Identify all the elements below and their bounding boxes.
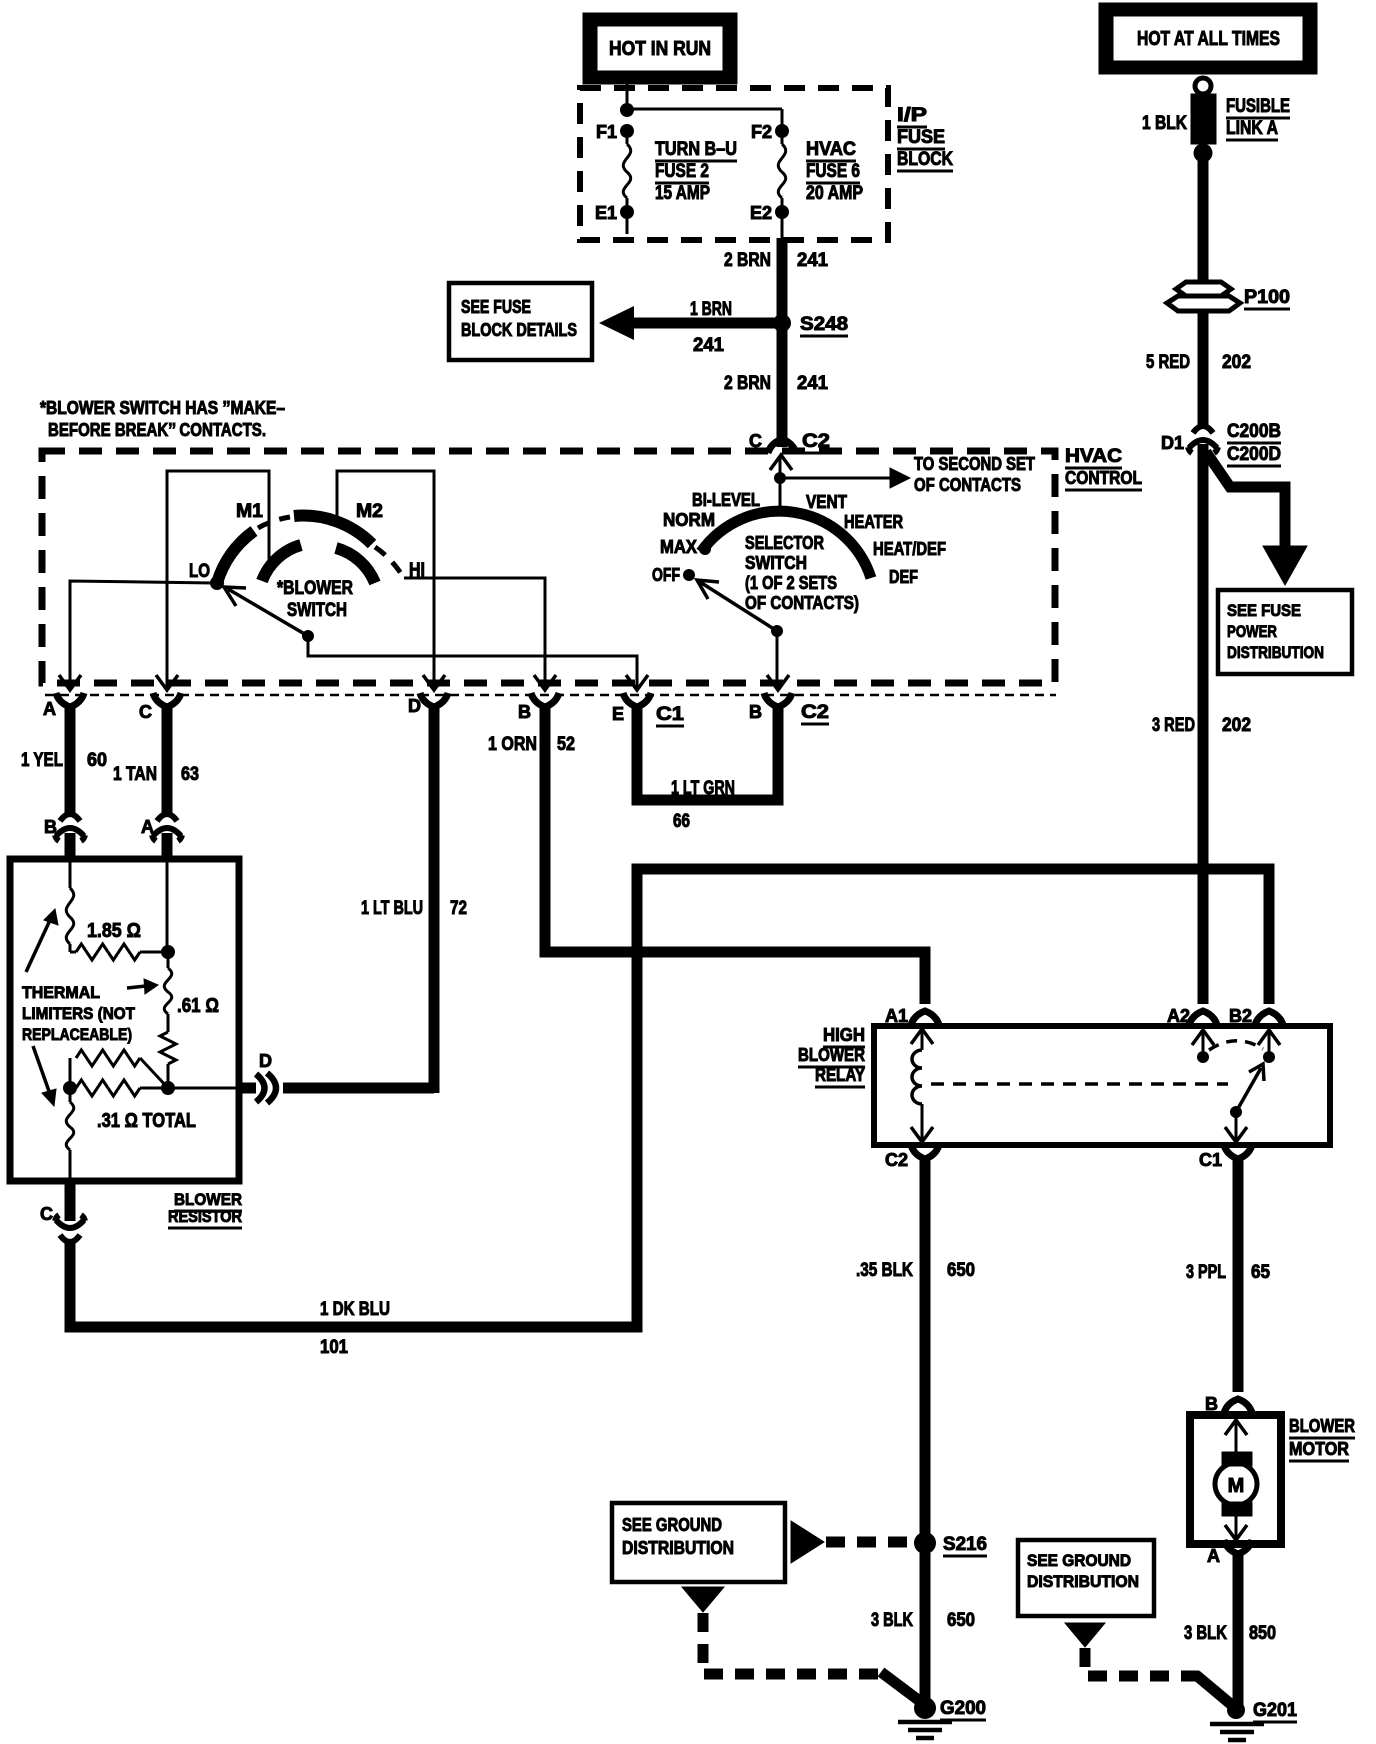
svg-text:POWER: POWER <box>1227 622 1277 641</box>
svg-text:C1: C1 <box>656 704 684 725</box>
callout box SEE GROUND DISTRIBUTION right <box>1018 1540 1154 1616</box>
svg-text:G201: G201 <box>1253 1700 1297 1721</box>
wire 1 LT BLU 72 <box>429 705 440 1093</box>
wire HI contact to terminal B <box>404 578 545 687</box>
svg-text:202: 202 <box>1222 715 1251 736</box>
dashed ground wire to G200 <box>703 1613 884 1674</box>
callout box SEE GROUND DISTRIBUTION left <box>612 1503 785 1582</box>
resistor .31 ohm upper zigzag <box>69 1058 72 1088</box>
fusible link A <box>1195 78 1211 94</box>
svg-text:A: A <box>43 699 56 719</box>
terminal C2 relay <box>911 1145 939 1159</box>
svg-text:C1: C1 <box>1199 1150 1222 1170</box>
blower switch outer arc solid LO-M1 <box>217 531 254 583</box>
leader arrow to middle limiter <box>127 986 146 988</box>
svg-text:3 BLK: 3 BLK <box>1184 1623 1227 1644</box>
svg-text:A: A <box>141 817 154 837</box>
svg-text:C200B: C200B <box>1227 421 1281 442</box>
svg-text:S248: S248 <box>800 314 848 335</box>
svg-text:B: B <box>44 817 57 837</box>
terminal E C1 HVAC control <box>626 675 648 690</box>
svg-text:DEF: DEF <box>889 567 918 587</box>
wire 3 RED 202 to relay A2 <box>1198 444 1209 1004</box>
wire 1 BRN 241 arrow to fuse block details <box>630 318 778 329</box>
svg-text:1 YEL: 1 YEL <box>21 750 63 771</box>
svg-text:C200D: C200D <box>1227 444 1281 465</box>
svg-text:241: 241 <box>693 335 724 356</box>
svg-text:B: B <box>749 702 762 722</box>
blower switch M2 loop wire <box>337 471 434 687</box>
blower switch outer arc dashed M1 section <box>258 517 290 528</box>
svg-text:SEE GROUND: SEE GROUND <box>1027 1551 1131 1570</box>
svg-text:VENT: VENT <box>806 492 847 512</box>
pin E1 <box>620 205 634 219</box>
svg-text:60: 60 <box>87 750 107 771</box>
relay internal dashed link <box>931 1082 1228 1086</box>
terminal C1 relay <box>1224 1145 1252 1159</box>
svg-text:850: 850 <box>1249 1623 1276 1644</box>
wire 3 PPL 65 <box>1233 1159 1244 1392</box>
svg-text:E1: E1 <box>595 203 617 223</box>
svg-text:I/P: I/P <box>897 105 927 126</box>
svg-text:1 DK BLU: 1 DK BLU <box>320 1299 390 1320</box>
blower switch inner arc left segment <box>262 545 301 581</box>
connector C of C2 HVAC control <box>768 439 796 453</box>
node 1.85 to .61 junction <box>161 945 175 959</box>
svg-text:NORM: NORM <box>663 510 715 530</box>
callout box SEE FUSE BLOCK DETAILS <box>449 283 592 360</box>
svg-text:15 AMP: 15 AMP <box>655 183 710 204</box>
svg-text:1 LT BLU: 1 LT BLU <box>361 898 423 919</box>
svg-text:MAX: MAX <box>660 537 697 557</box>
connector P100 grommet <box>1176 282 1231 296</box>
svg-text:C2: C2 <box>801 702 829 723</box>
svg-text:*BLOWER SWITCH HAS ’’MAKE–: *BLOWER SWITCH HAS ’’MAKE– <box>40 398 285 418</box>
svg-text:3 RED: 3 RED <box>1152 715 1195 736</box>
contact LO <box>210 576 224 590</box>
wire 2 BRN 241 upper <box>777 238 788 447</box>
svg-text:B2: B2 <box>1229 1006 1252 1026</box>
selector wiper pivot <box>771 625 783 637</box>
HVAC control dashed outline <box>42 451 1055 683</box>
svg-text:BLOWER: BLOWER <box>798 1045 865 1065</box>
svg-text:FUSE 2: FUSE 2 <box>655 161 709 182</box>
svg-text:BLOWER: BLOWER <box>1289 1416 1355 1436</box>
connector B inline on YEL wire <box>60 814 80 821</box>
wire F1 to F2 bus <box>627 108 782 111</box>
wire junction to selector arc <box>779 478 782 512</box>
leader arrow to lower limiter <box>33 1046 50 1094</box>
svg-text:LO: LO <box>189 561 210 582</box>
wire 1 DK BLU 101 <box>70 869 1269 1327</box>
svg-text:A2: A2 <box>1167 1006 1190 1026</box>
selector switch arc <box>701 511 871 578</box>
svg-text:20 AMP: 20 AMP <box>806 183 863 204</box>
contact MAX dot <box>699 543 711 555</box>
wire 3 BLK 850 <box>1233 1555 1244 1706</box>
terminal A HVAC control <box>59 675 81 690</box>
svg-text:C: C <box>40 1204 53 1224</box>
selector wiper arm <box>700 582 777 631</box>
svg-text:DISTRIBUTION: DISTRIBUTION <box>1027 1572 1139 1591</box>
svg-text:D: D <box>259 1051 272 1071</box>
svg-text:DISTRIBUTION: DISTRIBUTION <box>1227 643 1324 662</box>
dashed wire to S216 <box>826 1537 913 1548</box>
svg-text:RESISTOR: RESISTOR <box>168 1207 242 1226</box>
callout box SEE FUSE POWER DISTRIBUTION <box>1218 590 1352 674</box>
ground G200 <box>914 1697 936 1719</box>
svg-text:D: D <box>408 696 421 716</box>
svg-text:HEATER: HEATER <box>844 512 903 532</box>
svg-text:HEAT/DEF: HEAT/DEF <box>873 539 946 559</box>
terminal B blower motor <box>1224 1399 1252 1413</box>
svg-text:OFF: OFF <box>652 565 680 585</box>
svg-text:(1 OF 2 SETS: (1 OF 2 SETS <box>745 573 837 593</box>
resistor .31 ohm lower zigzag <box>70 1087 76 1090</box>
connector C inline below resistor <box>55 1215 85 1228</box>
svg-text:E2: E2 <box>750 203 772 223</box>
svg-text:CONTROL: CONTROL <box>1065 468 1142 488</box>
wire 1 YEL 60 <box>65 705 76 813</box>
pointer triangle below right box <box>1065 1623 1105 1647</box>
svg-text:1 BRN: 1 BRN <box>690 299 732 320</box>
I/P fuse block dashed outline <box>580 88 888 240</box>
svg-text:3 PPL: 3 PPL <box>1186 1262 1226 1283</box>
terminal A1 relay <box>911 1011 939 1025</box>
dashed ground wire to G201 <box>1085 1648 1199 1676</box>
pointer triangle to S216 <box>791 1521 824 1563</box>
node D output junction <box>161 1081 175 1095</box>
svg-text:3 BLK: 3 BLK <box>871 1610 913 1631</box>
connector D inline output <box>239 1083 256 1094</box>
svg-text:2 BRN: 2 BRN <box>724 250 771 271</box>
svg-text:M: M <box>1228 1475 1245 1497</box>
svg-text:A1: A1 <box>885 1006 908 1026</box>
wire HOT IN RUN to fuse block <box>626 84 629 110</box>
svg-text:LIMITERS (NOT: LIMITERS (NOT <box>22 1004 136 1023</box>
svg-text:BLOCK: BLOCK <box>897 149 953 170</box>
selector arrow up at C2 <box>770 455 792 470</box>
svg-text:FUSIBLE: FUSIBLE <box>1226 96 1290 117</box>
svg-text:241: 241 <box>797 250 828 271</box>
svg-text:C: C <box>139 702 152 722</box>
fuse HVAC FUSE 6 20 AMP <box>781 131 784 144</box>
svg-text:66: 66 <box>673 811 690 832</box>
wire C leg into resistor <box>166 859 169 952</box>
svg-text:REPLACEABLE): REPLACEABLE) <box>22 1025 132 1044</box>
svg-text:TURN B–U: TURN B–U <box>655 139 737 160</box>
wire 1 TAN 63 <box>162 705 173 813</box>
svg-text:OF CONTACTS): OF CONTACTS) <box>745 593 859 613</box>
svg-text:D1: D1 <box>1161 433 1184 453</box>
relay switch blade <box>1230 1106 1242 1118</box>
wire fusible link to P100 <box>1198 160 1209 284</box>
svg-text:THERMAL: THERMAL <box>22 983 100 1002</box>
svg-text:BLOCK DETAILS: BLOCK DETAILS <box>461 320 577 340</box>
svg-text:HOT AT ALL TIMES: HOT AT ALL TIMES <box>1137 28 1280 50</box>
svg-text:P100: P100 <box>1244 287 1290 308</box>
leader arrow to upper limiter <box>26 918 51 972</box>
svg-text:RELAY: RELAY <box>815 1065 865 1085</box>
svg-text:SWITCH: SWITCH <box>745 553 807 573</box>
node junction below C2 <box>774 472 786 484</box>
svg-text:E: E <box>612 704 624 724</box>
svg-text:SEE GROUND: SEE GROUND <box>622 1515 722 1535</box>
svg-text:.31 Ω TOTAL: .31 Ω TOTAL <box>97 1110 196 1132</box>
svg-text:63: 63 <box>181 764 199 785</box>
blower switch inner arc right segment <box>336 548 375 583</box>
svg-text:BI-LEVEL: BI-LEVEL <box>692 490 760 510</box>
thermal limiter on C leg <box>69 1088 72 1102</box>
svg-text:.35 BLK: .35 BLK <box>856 1260 913 1281</box>
wire 1 LT GRN 66 loop <box>637 705 778 800</box>
svg-text:M2: M2 <box>356 501 383 522</box>
power label HOT AT ALL TIMES <box>1099 3 1317 74</box>
svg-text:65: 65 <box>1251 1262 1270 1283</box>
svg-text:B: B <box>518 702 531 722</box>
svg-text:*BLOWER: *BLOWER <box>277 578 353 599</box>
svg-text:SWITCH: SWITCH <box>287 600 347 621</box>
blower switch wiper arm <box>228 589 308 636</box>
terminal A2 relay <box>1189 1011 1217 1025</box>
svg-text:LINK A: LINK A <box>1226 118 1278 139</box>
relay coil <box>911 1029 933 1044</box>
svg-text:HVAC: HVAC <box>1065 446 1122 467</box>
wire pivot to terminal B C2 <box>776 631 779 687</box>
blower switch wiper pivot <box>302 630 314 642</box>
pin F1 <box>620 124 634 138</box>
pin E2 <box>775 205 789 219</box>
svg-text:1.85 Ω: 1.85 Ω <box>87 920 141 942</box>
svg-text:5 RED: 5 RED <box>1146 352 1190 373</box>
thermal limiter and resistor .61 ohm <box>167 952 170 968</box>
terminal C HVAC control <box>156 675 178 690</box>
contact OFF dot <box>683 569 695 581</box>
svg-text:2 BRN: 2 BRN <box>724 373 771 394</box>
svg-text:.61 Ω: .61 Ω <box>177 995 219 1017</box>
blower switch outer arc dashed HI section <box>375 547 402 575</box>
svg-text:OF CONTACTS: OF CONTACTS <box>914 475 1021 495</box>
motor symbol <box>1225 1420 1247 1435</box>
svg-text:M1: M1 <box>236 501 263 522</box>
svg-text:C2: C2 <box>885 1150 908 1170</box>
wire .35 BLK 650 <box>920 1159 931 1704</box>
wire pivot to terminal E <box>308 636 637 687</box>
node S216 <box>914 1532 936 1554</box>
wire branch to fuse power distribution <box>1206 452 1285 546</box>
svg-text:1 LT GRN: 1 LT GRN <box>671 778 735 799</box>
svg-text:52: 52 <box>557 734 575 755</box>
power label HOT IN RUN <box>583 13 737 84</box>
terminal D HVAC control <box>423 675 445 690</box>
high blower relay outline <box>874 1026 1330 1145</box>
svg-text:FUSE 6: FUSE 6 <box>806 161 860 182</box>
terminal B HVAC control <box>534 675 556 690</box>
pin F2 <box>775 124 789 138</box>
svg-text:HIGH: HIGH <box>823 1025 865 1045</box>
svg-text:HOT IN RUN: HOT IN RUN <box>609 38 711 60</box>
terminal A blower motor <box>1224 1540 1252 1554</box>
svg-text:1 ORN: 1 ORN <box>488 734 537 755</box>
svg-text:F1: F1 <box>596 122 617 142</box>
svg-text:HI: HI <box>409 560 425 581</box>
svg-text:SEE FUSE: SEE FUSE <box>461 297 531 317</box>
svg-text:202: 202 <box>1222 352 1251 373</box>
svg-text:TO SECOND SET: TO SECOND SET <box>914 454 1035 474</box>
svg-text:G200: G200 <box>940 1698 986 1719</box>
connector face thin dashed line <box>45 694 1056 697</box>
svg-text:A: A <box>1207 1546 1220 1566</box>
svg-text:FUSE: FUSE <box>897 127 945 148</box>
svg-text:1 BLK: 1 BLK <box>1142 113 1187 134</box>
svg-text:MOTOR: MOTOR <box>1289 1439 1349 1459</box>
svg-text:1 TAN: 1 TAN <box>113 764 157 785</box>
wire D output to terminal D <box>283 1083 434 1094</box>
thermal limiter on A leg <box>69 859 72 888</box>
svg-text:650: 650 <box>947 1610 975 1631</box>
svg-text:101: 101 <box>320 1337 348 1358</box>
wire 5 RED 202 <box>1198 311 1209 429</box>
svg-text:SEE FUSE: SEE FUSE <box>1227 601 1301 620</box>
fuse TURN B-U FUSE 2 15 AMP <box>626 131 629 144</box>
svg-text:650: 650 <box>947 1260 975 1281</box>
wire to D output <box>168 1087 239 1090</box>
ground G201 <box>1227 1701 1245 1719</box>
svg-text:DISTRIBUTION: DISTRIBUTION <box>622 1538 734 1558</box>
resistor 1.85 ohm <box>70 951 76 954</box>
node left .31 junction <box>63 1081 77 1095</box>
blower resistor outline <box>10 859 239 1181</box>
connector A inline on TAN wire <box>157 814 177 821</box>
node junction above F1 <box>620 103 634 117</box>
svg-text:SELECTOR: SELECTOR <box>745 533 824 553</box>
wire 1 ORN 52 <box>545 705 925 1004</box>
blower switch outer arc solid M2 section <box>294 516 372 544</box>
wire LO contact to terminal A <box>70 581 213 687</box>
svg-text:72: 72 <box>450 898 467 919</box>
wire TO SECOND SET OF CONTACTS arrow <box>780 477 890 480</box>
terminal B C2 HVAC control <box>767 675 789 690</box>
svg-text:S216: S216 <box>943 1534 987 1555</box>
blower switch M1 loop wire <box>167 471 269 687</box>
terminal B2 relay <box>1255 1011 1283 1025</box>
pointer triangle below box to G200 <box>682 1587 724 1612</box>
relay armature dashed travel arc <box>1209 1041 1263 1050</box>
svg-text:HVAC: HVAC <box>806 139 856 160</box>
svg-text:241: 241 <box>797 373 828 394</box>
blower motor outline <box>1190 1415 1281 1544</box>
connector D1 C200B C200D <box>1193 426 1213 433</box>
svg-text:F2: F2 <box>751 122 772 142</box>
svg-text:BEFORE BREAK’’ CONTACTS.: BEFORE BREAK’’ CONTACTS. <box>48 420 266 440</box>
wire resistor C output <box>65 1181 76 1221</box>
node S248 <box>773 314 791 332</box>
